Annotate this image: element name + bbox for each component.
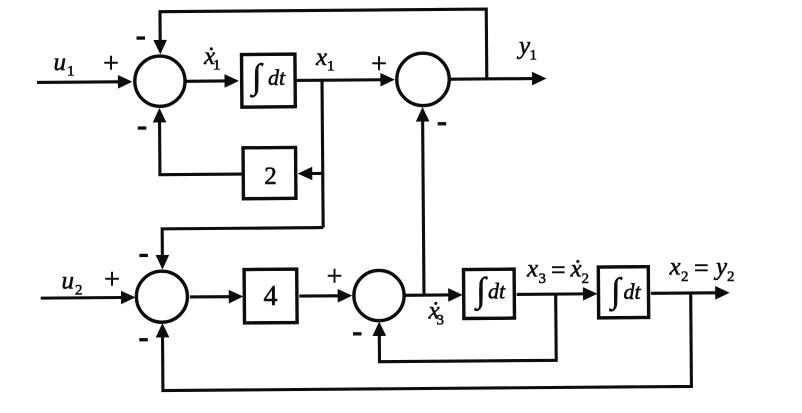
svg-text:dt: dt	[268, 65, 286, 90]
svg-text:ẋ: ẋ	[570, 256, 582, 283]
wire: node up into S2 bottom (negative)	[423, 121, 424, 295]
svg-text:3: 3	[539, 271, 547, 287]
svg-text:dt: dt	[624, 279, 642, 304]
svg-text:+: +	[371, 49, 387, 80]
wire: I1 output x1 to summer S2	[296, 78, 382, 82]
wire: I3 output x2 = y2	[651, 291, 716, 295]
svg-text:2: 2	[681, 269, 689, 285]
svg-text:dt: dt	[488, 279, 506, 304]
svg-text:2: 2	[75, 283, 83, 299]
svg-text:1: 1	[213, 58, 221, 74]
svg-text:1: 1	[67, 64, 75, 80]
svg-text:=: =	[694, 254, 709, 283]
wire: x1 junction vertical drop	[322, 80, 323, 227]
wire: y2 feedback down-left-up into S3 bottom (negative)	[162, 293, 691, 391]
svg-text:x: x	[315, 44, 327, 71]
svg-text:u: u	[54, 49, 67, 76]
wire: I2 output x3 to integrator I3	[517, 292, 584, 296]
wire: y1 negative feedback over the top into S1	[160, 9, 487, 81]
integrator I3 box	[598, 267, 648, 318]
svg-text:x: x	[526, 256, 538, 283]
svg-text:2: 2	[264, 163, 277, 190]
wire: S3 output to gain block 4	[190, 295, 230, 298]
label - at S2 bottom input	[438, 122, 447, 125]
svg-text:+: +	[327, 262, 343, 293]
svg-text:3: 3	[437, 313, 445, 329]
svg-text:y: y	[713, 254, 728, 281]
svg-text:=: =	[551, 256, 566, 285]
label - at S1 bottom input	[138, 126, 147, 129]
svg-text:2: 2	[582, 271, 590, 287]
svg-text:1: 1	[327, 59, 335, 75]
svg-text:∫: ∫	[250, 57, 264, 98]
summing junction S2	[397, 53, 450, 106]
wire: gain 4 output into summer S4	[299, 294, 338, 297]
svg-text:+: +	[103, 49, 119, 80]
wire: S2 output y1	[450, 77, 533, 81]
wire: x1 link down and across into S3 top (negative)	[162, 228, 323, 257]
svg-text:4: 4	[264, 281, 278, 312]
integrator I2 box	[464, 269, 515, 318]
svg-text:∫: ∫	[474, 271, 488, 312]
label - at S3 bottom input	[139, 338, 148, 341]
wire: branch into gain block 2	[312, 172, 323, 175]
label - at S4 bottom input	[353, 332, 362, 335]
summing junction S1	[135, 56, 186, 107]
wire: gain 2 output into S1 bottom (negative)	[160, 121, 242, 174]
label - at S3 top input	[139, 254, 148, 257]
summing junction S3	[136, 271, 187, 322]
svg-text:1: 1	[530, 48, 538, 64]
wire: S1 output xdot1 to integrator I1	[186, 79, 226, 82]
gain block 2 box	[243, 147, 296, 198]
label - at S1 top input	[137, 36, 146, 39]
svg-text:+: +	[104, 265, 120, 296]
wire: S4 output xdot3 to integrator I2	[404, 293, 449, 296]
gain block 4 box	[244, 269, 297, 323]
summing junction S4	[354, 270, 405, 321]
wire: u2 input into summer S3	[41, 296, 122, 300]
svg-text:∫: ∫	[609, 271, 623, 312]
wire: x3 feedback down-left-up into S4 bottom (negative)	[379, 294, 556, 362]
svg-text:x: x	[669, 254, 681, 281]
svg-text:2: 2	[727, 269, 735, 285]
svg-text:u: u	[62, 268, 75, 295]
integrator I1 box	[242, 54, 296, 107]
wire: u1 input into summer S1	[37, 80, 119, 84]
